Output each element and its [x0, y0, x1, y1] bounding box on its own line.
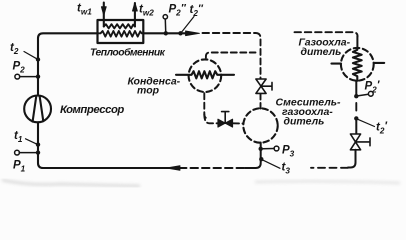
wire below valve V3 with corner: [348, 150, 356, 168]
compressor chord left: [33, 96, 37, 122]
leader t2: [24, 52, 37, 59]
valve V3 upper triangle: [350, 134, 360, 142]
wire P2'' terminal stem: [164, 19, 166, 31]
valve V1 lower triangle: [256, 86, 266, 93]
wire t2' to valve V3: [355, 119, 357, 134]
terminal circle P2'': [163, 15, 167, 19]
wire P1 terminal stem: [19, 152, 35, 154]
wire P2' terminal stem: [358, 94, 368, 96]
condenser zigzag: [176, 71, 234, 78]
wire suction dashed mid: [179, 167, 245, 169]
svg-text:дитель: дитель: [284, 116, 325, 128]
compressor chord right: [40, 96, 44, 121]
heat exchanger lower zigzag (gas line): [98, 31, 144, 37]
wire P2 terminal stem: [20, 76, 36, 78]
wire top-left horizontal from corner to heat exchanger: [38, 33, 98, 95]
gas cooler right stub: [374, 62, 384, 64]
valve V3 stem and handle: [356, 138, 371, 146]
leader t2'': [181, 17, 194, 33]
compressor M1 circle: [24, 96, 51, 123]
valve V1 stem and handle: [261, 82, 272, 90]
dashed line condenser to valve V2: [204, 114, 243, 124]
mixer-gascooler dashed circle: [243, 108, 277, 142]
terminal circle P1: [15, 150, 20, 155]
junction dot t1: [36, 142, 40, 146]
heat exchanger U1 box: [98, 20, 144, 43]
leader t1: [26, 139, 38, 144]
scan smudge bottom-left: [2, 180, 400, 186]
terminal circle P3: [274, 146, 279, 151]
junction dot P2: [36, 74, 40, 78]
junction dot P3: [259, 147, 263, 151]
dashed stub valve V1 to mixer: [260, 94, 262, 109]
wire suction solid to riser corner: [245, 143, 261, 169]
wire P3 terminal stem: [263, 148, 274, 150]
junction dot P1: [36, 150, 40, 154]
dashed riser condenser top: [206, 53, 256, 58]
water inlet line with down arrow t_w1: [103, 3, 105, 27]
condenser dashed circle: [189, 59, 222, 92]
gas cooler left stub: [332, 63, 342, 65]
arrow right on discharge line: [186, 31, 200, 36]
svg-text:тор: тор: [137, 85, 160, 97]
terminal circle P2': [368, 91, 373, 96]
junction dot P2': [354, 94, 358, 98]
dashed return line to mixer bottom: [311, 167, 348, 169]
svg-text:Теплообменник: Теплообменник: [90, 47, 166, 59]
dashed stub below P2': [355, 103, 357, 111]
leader t2': [358, 119, 375, 126]
terminal circle P2: [15, 74, 20, 79]
valve V2 stem and handle: [222, 112, 229, 124]
junction dot t3: [259, 157, 263, 161]
wire left vertical compressor to bottom corner: [38, 122, 177, 168]
valve V2 filled bowtie: [218, 119, 233, 127]
junction dot t2'': [178, 31, 182, 35]
svg-text:дитель: дитель: [301, 46, 342, 58]
water outlet line with up arrow t_w2: [134, 3, 136, 27]
junction dot t2: [36, 57, 40, 61]
dashed corner down to valve V1: [256, 33, 261, 79]
svg-text:Компрессор: Компрессор: [60, 104, 124, 116]
junction dot t2': [354, 116, 358, 120]
dashed line top from arrow to valve branch: [203, 32, 256, 34]
dashed top line to gas cooler: [295, 32, 358, 36]
heat exchanger upper zigzag (water line): [104, 24, 135, 28]
valve V1 upper triangle: [256, 79, 266, 86]
junction dot P2'': [164, 31, 168, 35]
wire heat exchanger right to arrow: [143, 32, 190, 34]
gas cooler dashed circle: [341, 48, 374, 81]
valve V3 lower triangle: [350, 142, 360, 150]
arrow left on suction line: [166, 166, 180, 171]
leader t3: [262, 160, 280, 169]
dashed riser condenser bottom: [204, 93, 208, 118]
wire gas cooler down to P2': [355, 81, 357, 96]
gas cooler vertical zigzag: [353, 48, 362, 81]
